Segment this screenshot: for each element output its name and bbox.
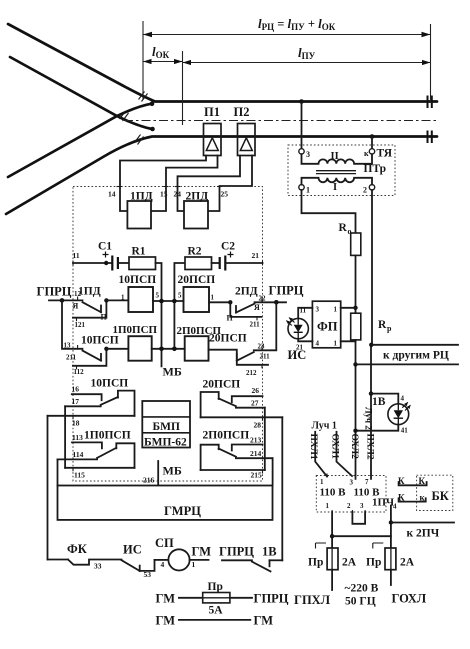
label l_PU [298,45,316,61]
node FP pin1 top junction [353,306,357,310]
LED of relay 1V [388,402,411,424]
svg-text:~220 В: ~220 В [345,583,379,595]
svg-text:ГПРЦ: ГПРЦ [219,545,254,559]
wire 20PSP terminal 1 out [209,301,230,303]
contact K upper of BK [398,476,427,486]
wire common 27 down to 215 line [264,408,266,470]
insulated joint at frog crossing [120,111,129,121]
wire rung between fuse feeds [332,535,391,537]
svg-text:10ПСП: 10ПСП [81,335,119,347]
resistor R2 [185,246,212,270]
wire to 10PSP terminal 1 [106,299,128,301]
node GPRC right [274,300,279,305]
svg-text:2ПД: 2ПД [235,286,258,298]
wire Ro to FP/Rp column [355,255,357,313]
svg-text:112: 112 [74,368,85,376]
resistor Rp [351,313,392,340]
svg-text:1П0ПСП: 1П0ПСП [84,430,131,442]
wire C1 to R1 [119,262,130,264]
node: top rail tap to PTr [299,99,304,104]
terminal 25 [217,187,228,199]
svg-text:R2: R2 [188,246,202,258]
label l_OK [152,44,170,60]
contact 20PSP (26-27-28) mirrored [201,386,283,430]
label MB upper stub [163,365,182,379]
svg-text:П2: П2 [234,105,250,119]
terminal 1 of PTr [299,185,310,195]
dimension line l_RC with arrows [143,32,431,37]
svg-text:ФК: ФК [67,542,87,556]
svg-text:Пр: Пр [366,557,381,569]
svg-text:33: 33 [94,562,102,571]
resistor R1 [129,246,156,270]
svg-text:5: 5 [178,292,182,300]
wire FP pin1 bottom to Rp column [341,340,356,342]
label l_RC = l_PU + l_OK [258,16,336,32]
svg-text:17: 17 [72,397,80,406]
dimension line l_PU with arrows [183,60,431,65]
dimension tick right [430,24,432,103]
fuse Pr 5A [203,581,230,617]
svg-text:2: 2 [347,502,351,510]
label GOHL [392,592,427,606]
svg-text:2П0ПСП: 2П0ПСП [203,430,250,442]
track receiver 2PD [184,191,208,229]
contact 1PD (12-121) [73,286,108,330]
svg-text:2А: 2А [400,557,415,569]
svg-text:1: 1 [326,502,330,510]
svg-text:27: 27 [251,399,259,408]
svg-text:25: 25 [221,190,229,199]
label 1PCh [372,497,394,509]
label TYa [377,148,393,160]
wire GM to GM [179,619,250,621]
svg-text:о: о [348,227,352,236]
insulated joint on lower rail curve [135,135,144,145]
svg-text:БМП: БМП [153,421,180,433]
label 2P0PSP over contact 213/214 [203,430,250,442]
track box P1 with arrester [204,124,222,156]
node k-drugim-RC branch [369,343,373,347]
wire right outer bus [281,417,283,560]
svg-text:20ПСП: 20ПСП [209,333,247,345]
svg-text:Пр: Пр [308,557,323,569]
svg-text:ПТр: ПТр [364,163,387,175]
transformer 10PSP [119,274,160,312]
wire top rail to PTr terminal 3 [301,102,303,149]
terminal 15 [160,187,169,199]
svg-text:110 В: 110 В [320,487,347,499]
svg-text:215: 215 [251,471,263,480]
rail: inner rail from lower-left crossing frog, curving to node [8,104,151,177]
wire fuse1 to GPHL [331,570,333,590]
svg-text:21: 21 [252,251,260,260]
terminal 3 of PTr [299,149,310,159]
svg-text:113: 113 [72,433,83,442]
rail: inner rail from upper-left crossing frog, curving to node [10,57,152,129]
svg-text:ПХЛ1: ПХЛ1 [308,434,318,460]
label Luch 2 vertical [364,407,374,430]
label PTr [364,163,387,175]
wire GPRC down to second contact [62,300,83,348]
node k 2PCh [389,520,393,524]
svg-text:1: 1 [306,186,310,195]
svg-text:R: R [339,222,348,234]
relay rack dotted enclosure [73,187,263,482]
terminal 14 [108,187,122,199]
block FP [312,301,340,348]
wire GPRC right down [254,302,276,350]
contact 10PSP (16-17-18) [48,385,135,428]
svg-text:С2: С2 [221,241,235,253]
insulated joint at right end of top rail [428,96,432,109]
label MB lower [163,464,182,478]
contact 10PSP (13-112) [64,335,119,377]
svg-text:ИС: ИС [123,543,142,557]
wire P1 left lead to terminal 14 [120,156,206,212]
terminal 3 bottom [360,502,365,514]
svg-text:ГМ: ГМ [156,592,176,606]
label 1P0PSP over contact 113/114 [84,430,131,442]
svg-text:lРЦ = lПУ + lОК: lРЦ = lПУ + lОК [258,16,336,32]
label GM row2 right [254,614,274,628]
terminal 216 [143,476,155,485]
svg-text:ФП: ФП [317,320,338,334]
node left column lower [159,347,164,352]
wire 1V LED bottom back to Luch2 line [356,425,399,431]
terminal k of PTr (TYa) [364,149,375,158]
node: frog joint lower [150,127,155,132]
svg-text:212: 212 [246,369,257,377]
svg-text:20ПСП: 20ПСП [178,274,216,286]
wire FP pin3 to IS [298,308,312,319]
svg-text:50 ГЦ: 50 ГЦ [345,596,376,608]
fuse holder hook 2 [373,543,384,549]
wire PTr-2 down long to terminal 7 [371,190,372,479]
svg-text:3: 3 [350,479,354,487]
svg-text:216: 216 [143,476,155,485]
svg-text:МБ: МБ [163,464,182,478]
svg-text:1: 1 [121,294,125,302]
node contact output to 10PSP [104,298,108,302]
svg-text:114: 114 [73,450,84,459]
wire R1 to center column [156,263,162,366]
svg-text:1: 1 [320,478,324,486]
svg-text:lОК: lОК [152,44,170,60]
svg-text:13: 13 [64,342,72,350]
wire fuse2 to GOHL [390,570,392,585]
wire U-bridge terminals 2-3 [352,512,365,524]
label GPHL [294,593,331,607]
svg-text:211: 211 [260,353,271,361]
core of PTr [316,171,356,174]
label 10PSP over contact 16/17 [91,378,129,390]
node rung left [330,534,334,538]
fuse row1 label GM [156,592,176,606]
contact 1V bottom [262,545,282,567]
contact 1P0PSP (113-114-115) [58,433,135,480]
motor SP [155,536,190,571]
label P1 [204,105,220,119]
wire FP pin1 top to Rp column [341,307,356,309]
capacitor C2 [220,241,236,271]
wire terminal 4 down [390,506,392,549]
terminal 215 tick on bottom edge [157,479,159,484]
svg-text:211: 211 [66,354,77,362]
terminal 24 [174,187,182,199]
terminal 4 label [393,503,397,511]
fuse Pr 2A left [308,548,357,570]
svg-text:ГПРЦ: ГПРЦ [37,285,72,299]
pin label 41 of 1V [401,427,409,435]
insulated joint at right end of bottom rail [428,131,432,144]
wire terminal 1 down to fuse 1 [331,512,333,548]
svg-text:24: 24 [174,190,182,199]
label Luch 1 [312,421,337,432]
svg-text:ГПХЛ: ГПХЛ [294,593,331,607]
wire R2 to C2 [212,262,220,264]
node on Luch2 line [353,429,357,433]
wire SP to GM contact [190,560,209,569]
terminal 2 bottom [347,502,352,514]
node right column upper [172,299,177,304]
transformer 1P0PSP [113,324,158,361]
svg-text:Пр: Пр [208,581,223,593]
wire OHL1 feed [337,432,353,476]
label 110 V second [354,487,381,499]
svg-text:к другим РЦ: к другим РЦ [383,350,449,362]
node: bottom rail tap to PTr [370,134,375,139]
svg-text:41: 41 [401,427,409,435]
svg-text:10ПСП: 10ПСП [91,378,129,390]
svg-text:С1: С1 [98,241,112,253]
svg-text:ГМ: ГМ [254,614,274,628]
resistor Ro [339,222,361,255]
svg-text:R: R [378,319,387,331]
wire C2 to terminal 21 [226,262,263,264]
terminal 1 top of 110V [320,474,327,487]
terminal 11 [73,251,80,266]
svg-text:1П0ПСП: 1П0ПСП [113,324,158,336]
wire common 114 down to GMRC corner [57,459,59,485]
pin label 21 of IS [296,344,304,352]
svg-text:ГПРЦ: ГПРЦ [254,592,289,606]
svg-text:5: 5 [156,292,160,300]
dimension tick left [142,21,144,99]
capacitor C1 [98,241,118,271]
svg-text:121: 121 [75,321,86,329]
pin label 4 of 1V [401,395,405,403]
svg-text:214: 214 [250,449,262,458]
wire left outer bus [47,416,49,560]
fuse row2 label GM left [156,614,176,628]
wire P2 right lead to terminal 25 [208,156,252,212]
svg-text:ОХЛ1: ОХЛ1 [330,434,340,460]
svg-text:2: 2 [363,186,367,195]
node C1 branch [104,261,108,265]
label 110 V first [320,487,347,499]
node: frog joint on top rail [150,102,155,107]
svg-text:Я: Я [73,302,79,311]
svg-text:3: 3 [316,306,320,314]
fuse holder hook 1 [316,543,327,549]
track receiver 1PD [127,191,152,229]
svg-text:1: 1 [192,560,196,569]
label k drugim RC [383,350,449,362]
svg-text:2ПД: 2ПД [186,191,209,203]
node left column upper [159,299,164,304]
svg-text:26: 26 [252,386,260,395]
wire GM to fuse Pr [179,597,203,599]
contact IS (53) [122,543,155,580]
svg-text:БК: БК [432,489,449,503]
wire terminal 11 to C1 [73,262,112,264]
svg-text:Луч 1: Луч 1 [312,421,337,432]
svg-text:11: 11 [73,251,80,260]
svg-text:к: к [364,149,369,158]
svg-text:ИС: ИС [288,348,307,362]
wire Rp down to terminal 3 of 110V block [355,340,357,479]
contact 2P0PSP (213-214-215) mirrored [201,436,273,480]
track box P2 with arrester [238,124,256,156]
wire PTr-1 down and over to Ro [302,190,356,233]
svg-text:28: 28 [254,421,262,430]
svg-text:ГМ: ГМ [156,614,176,628]
svg-text:15: 15 [160,190,168,199]
wire between PSP windings [153,300,184,302]
svg-text:16: 16 [72,385,80,394]
terminal 2 of PTr [363,185,375,195]
svg-text:Я: Я [254,303,260,312]
contact GPRC bottom [219,545,271,572]
svg-text:1: 1 [211,294,215,302]
LED indicator IS [286,318,308,339]
svg-text:БМП-62: БМП-62 [144,437,187,449]
svg-text:II: II [331,151,339,162]
svg-text:4: 4 [401,395,405,403]
svg-text:ГМРЦ: ГМРЦ [164,504,201,518]
contact 20PSP (23-212) mirrored [209,333,271,378]
svg-text:7: 7 [365,478,369,486]
svg-text:23: 23 [258,343,266,351]
svg-text:П1: П1 [204,105,220,119]
label PHL1 vertical [308,434,318,460]
wire FP pin4 to IS [298,339,312,342]
rail: upper branch rail curving into top rail [8,24,437,102]
svg-text:СП: СП [155,536,174,550]
svg-text:3: 3 [360,502,364,510]
svg-text:lПУ: lПУ [298,45,316,61]
svg-text:1В: 1В [262,545,277,559]
svg-text:11: 11 [300,307,307,315]
svg-text:115: 115 [74,471,85,480]
svg-text:3: 3 [306,150,310,159]
svg-text:18: 18 [72,419,80,428]
contact K lower of BK [398,493,426,503]
svg-text:211: 211 [250,321,261,329]
wire MB stub to GMRC [157,461,159,486]
wire P1 right lead to terminal 15 [151,156,218,212]
track axis dash-dot line [124,120,437,122]
svg-text:2А: 2А [342,557,357,569]
node 1V branch [369,391,373,395]
label 20PSP over contact 26/27 [203,379,241,391]
wire common 17 down to 115 line [64,406,66,468]
svg-text:П: П [227,314,234,323]
label k 2PCh [407,528,440,540]
svg-text:20ПСП: 20ПСП [203,379,241,391]
wire fuse to GPRC label [230,597,252,599]
block BMP / BMP-62 [142,401,190,449]
contact FK (33) [67,542,122,571]
svg-text:ТЯ: ТЯ [377,148,393,160]
label GPRC right [269,284,304,298]
dimension line l_OK with arrows [143,59,183,64]
node contact output to 1P0PSP [104,347,108,351]
svg-text:14: 14 [108,190,116,199]
label PHL2 vertical [365,434,375,460]
svg-text:ОХЛ2: ОХЛ2 [349,434,359,460]
label GPRC row1 [254,592,289,606]
wire common 214 down to GMRC corner [272,458,274,485]
svg-text:ПХЛ2: ПХЛ2 [365,434,375,460]
wire GPRC left bus [49,299,83,301]
dimension tick middle [182,51,184,125]
svg-text:213: 213 [250,436,262,445]
svg-text:1: 1 [334,340,338,348]
svg-text:ГОХЛ: ГОХЛ [392,592,427,606]
svg-text:R1: R1 [132,246,146,258]
svg-text:ГМ: ГМ [192,545,212,559]
label OHL1 vertical [330,434,340,460]
node branch to second k-drugim-RC line [353,362,357,366]
svg-text:1ПД: 1ПД [78,286,101,298]
terminal 21 [252,251,263,266]
insulated joint on upper rail curve [139,92,148,102]
transformer PTr dotted enclosure [288,145,395,196]
svg-text:МБ: МБ [163,365,182,379]
transformer 20PSP [178,274,216,312]
svg-text:р: р [387,324,392,333]
contact 2PD (22-211) mirrored [227,286,287,329]
bottom chain: bus corner to FK [48,559,69,561]
svg-text:5А: 5А [209,605,224,617]
wire 1V relay branch [371,394,398,404]
fuse Pr 2A right [366,548,415,570]
pin label 11 of IS [300,307,307,315]
winding II of PTr [302,151,373,164]
label IS [288,348,307,362]
svg-text:1: 1 [334,306,338,314]
svg-text:22: 22 [259,295,267,303]
wire k 2PCh [391,522,454,524]
label GPRC left [37,285,72,299]
svg-text:53: 53 [144,570,152,579]
block BK dotted enclosure [417,475,453,510]
rail: lower branch rail curving into bottom rail [6,137,437,215]
terminal 3 top of 110V [350,474,356,487]
wire center column right [174,263,185,349]
winding I of PTr [302,178,373,193]
label P2 [234,105,250,119]
svg-text:к 2ПЧ: к 2ПЧ [407,528,440,540]
wire second k-drugim-RC line [356,363,459,365]
svg-text:4: 4 [161,560,165,569]
svg-text:ГПРЦ: ГПРЦ [269,284,304,298]
wire to 1P0PSP left [106,348,128,350]
wire P2 left lead to terminal 24 [178,156,241,212]
node GPRC left [60,298,65,303]
